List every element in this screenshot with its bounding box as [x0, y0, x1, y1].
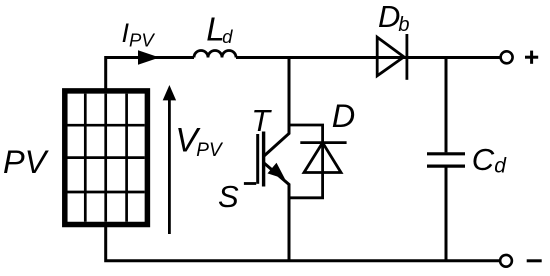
svg-text:S: S — [218, 179, 239, 214]
svg-text:PV: PV — [3, 144, 50, 180]
svg-text:T: T — [251, 104, 272, 138]
svg-text:D: D — [332, 98, 355, 134]
